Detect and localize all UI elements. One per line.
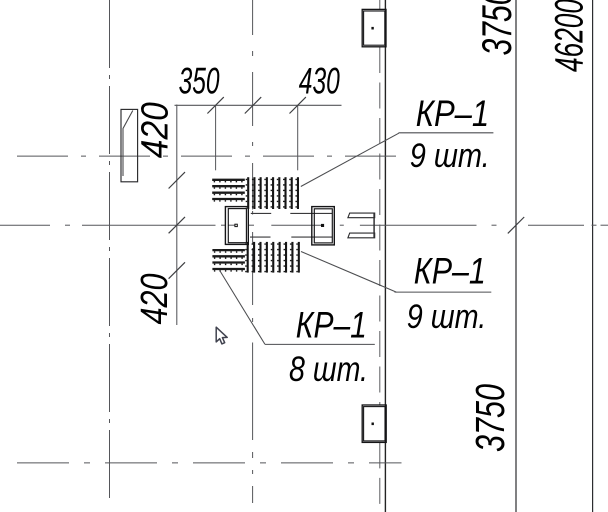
dimension tick 420 top bbox=[169, 172, 185, 188]
svg-text:8 шт.: 8 шт. bbox=[289, 350, 368, 389]
wire horizontal axis line 3 (y=462.9, dash-dot) bbox=[17, 462, 402, 464]
svg-text:350: 350 bbox=[179, 61, 220, 102]
rebar frame KP-1 group bottom-right (9 vertical bars) bbox=[247, 242, 249, 273]
wire horizontal axis line 1 (y=156.1, dash-dot) bbox=[17, 155, 400, 157]
wire vertical dimension line 420/420 (x=176.8) bbox=[176, 105, 178, 326]
wall plate outline bbox=[121, 109, 138, 181]
dimension tick 420 middle on axis bbox=[169, 217, 185, 233]
column K4 (bottom right) outline bbox=[362, 405, 386, 442]
mouse cursor bbox=[216, 327, 227, 344]
wire grid dimension line (x=516, solid) bbox=[515, 0, 517, 512]
wire vertical centerline B (x=252.6, dash-dot) bbox=[252, 0, 254, 35]
dimension tick at 350/430 bbox=[245, 97, 261, 113]
column K2 (right) outline bbox=[312, 207, 335, 245]
wire beam bottom edge bbox=[250, 236, 271, 238]
wire beam top edge bbox=[251, 212, 271, 214]
wire right border line (x=592.6, solid) bbox=[592, 0, 594, 512]
wire hidden dashed line (x=379.8) bbox=[379, 0, 381, 9]
dimension tick at 350 left bbox=[207, 97, 223, 113]
wire horizontal dimension line 350/430 (y=105.3) bbox=[175, 104, 342, 106]
svg-text:3750: 3750 bbox=[467, 384, 513, 452]
column K3 (top right) outline bbox=[362, 9, 386, 46]
rebar frame KP-1 group top-right (9 vertical bars) bbox=[247, 177, 249, 209]
wire vertical axis line A (x=109.5, dash-dot) bbox=[109, 0, 111, 498]
svg-text:420: 420 bbox=[135, 102, 177, 158]
rebar frame KP-1 group top-left (4 horizontal bars) bbox=[212, 179, 245, 181]
wire extension line (x=215.6) bbox=[215, 105, 217, 170]
wire extension line (x=297.7) bbox=[297, 105, 299, 170]
svg-text:КР–1: КР–1 bbox=[414, 251, 486, 292]
channel bracket web bbox=[373, 213, 375, 238]
leader line to top-right rebar group bbox=[301, 133, 399, 186]
wire wall line (x=385.4, solid) bbox=[384, 0, 386, 512]
column K1 center mark bbox=[235, 224, 237, 226]
column K3 center dot bbox=[371, 27, 373, 30]
column K2 center dot bbox=[321, 224, 324, 227]
svg-text:420: 420 bbox=[134, 274, 176, 325]
svg-text:430: 430 bbox=[299, 61, 340, 102]
dimension tick 420 bottom bbox=[169, 262, 185, 278]
column K1 (left) outline bbox=[225, 207, 248, 245]
dimension tick at 430 right bbox=[290, 97, 306, 113]
svg-text:3750: 3750 bbox=[473, 0, 520, 56]
wire main horizontal axis (y=225.2, dash-dot) bbox=[0, 224, 50, 226]
column K4 center dot bbox=[372, 423, 374, 426]
rebar frame KP-1 group bottom-left (4 horizontal bars) bbox=[212, 249, 245, 251]
svg-text:9 шт.: 9 шт. bbox=[410, 137, 490, 175]
svg-text:9 шт.: 9 шт. bbox=[407, 298, 487, 336]
channel bracket flange bottom bbox=[348, 233, 375, 238]
svg-text:46200: 46200 bbox=[547, 0, 591, 72]
svg-text:КР–1: КР–1 bbox=[416, 93, 490, 134]
leader line to bottom-left rebar group bbox=[220, 271, 265, 345]
svg-text:КР–1: КР–1 bbox=[296, 304, 367, 345]
leader line to bottom-right rebar group bbox=[301, 252, 396, 293]
channel bracket flange top bbox=[348, 213, 375, 218]
dimension tick on grid line bbox=[508, 217, 524, 233]
